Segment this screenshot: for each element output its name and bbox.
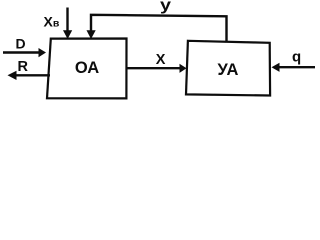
block UA (control automaton) xyxy=(186,41,270,96)
svg-text:УА: УА xyxy=(218,61,239,79)
arrowhead Xv into OA xyxy=(63,30,72,39)
arrowhead X into UA xyxy=(180,64,187,73)
block OA (operational automaton) xyxy=(47,39,127,99)
svg-text:ОА: ОА xyxy=(75,59,99,77)
svg-text:R: R xyxy=(18,59,29,75)
svg-text:Хв: Хв xyxy=(44,14,60,30)
svg-text:D: D xyxy=(16,36,26,52)
arrowhead D into OA xyxy=(39,48,47,57)
wire feedback y from UA top to OA top xyxy=(91,15,227,42)
arrowhead R out left xyxy=(8,71,17,80)
svg-text:у: у xyxy=(160,0,171,14)
wire q input xyxy=(278,66,315,68)
svg-text:X: X xyxy=(156,52,166,68)
wire X from OA to UA xyxy=(127,67,181,69)
arrowhead q into UA xyxy=(272,63,280,72)
wire R output xyxy=(16,74,50,76)
wire Xv input xyxy=(66,8,68,34)
arrowhead y into OA xyxy=(87,30,96,39)
wire D input xyxy=(3,51,40,53)
svg-text:q: q xyxy=(292,48,301,65)
